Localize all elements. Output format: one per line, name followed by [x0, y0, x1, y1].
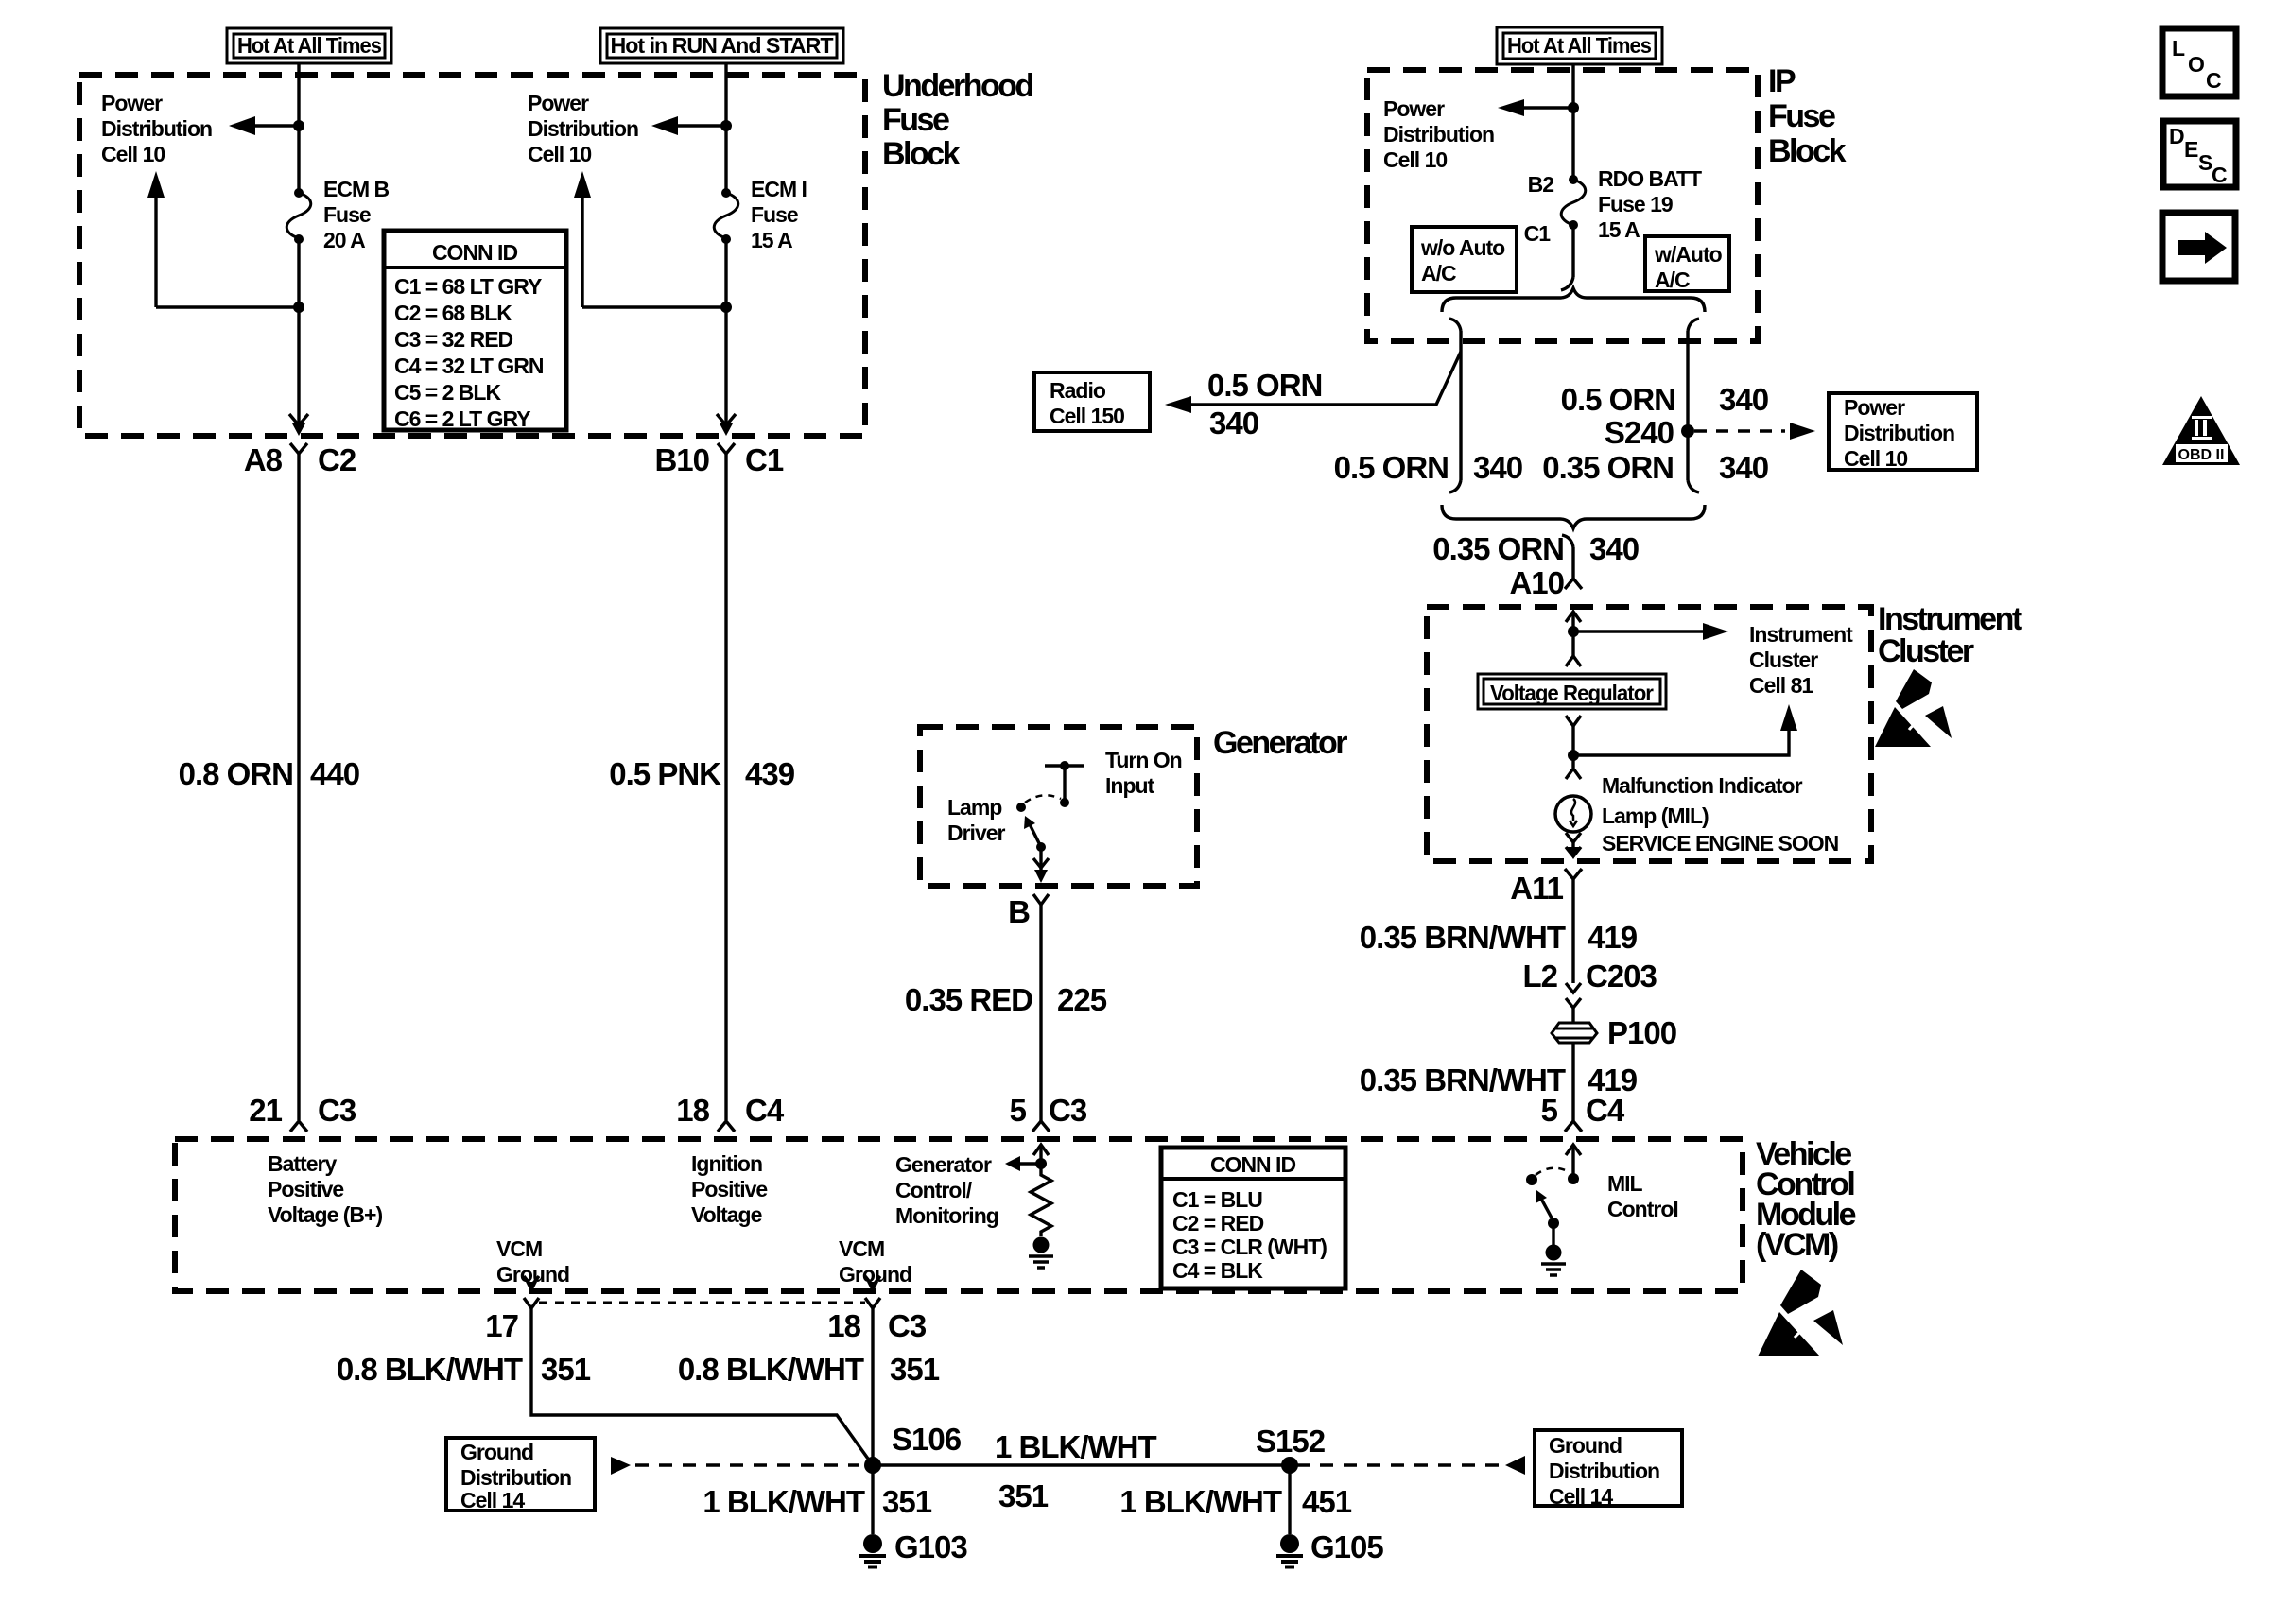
svg-text:Ground: Ground	[460, 1440, 533, 1464]
svg-text:Malfunction Indicator: Malfunction Indicator	[1602, 773, 1803, 798]
connector fork below generator (B)	[1033, 894, 1049, 905]
header box: Hot At All Times (IP)	[1497, 27, 1662, 64]
svg-text:C3 = 32 RED: C3 = 32 RED	[394, 327, 513, 352]
arrowhead to Radio box	[1165, 396, 1191, 413]
label: Instrument Cluster Cell 81	[1749, 622, 1853, 698]
svg-text:0.5 ORN: 0.5 ORN	[1334, 450, 1449, 485]
CONN ID table (underhood)	[384, 231, 566, 430]
wire: radio feed diagonal	[1190, 352, 1461, 405]
svg-text:S240: S240	[1605, 415, 1674, 450]
label: Ignition Positive Voltage	[691, 1151, 767, 1227]
wire W3 down to VCM	[1039, 905, 1042, 1121]
svg-text:Power: Power	[1844, 395, 1905, 420]
wire below RDO BATT fuse	[1571, 225, 1574, 277]
svg-text:Fuse: Fuse	[323, 202, 371, 227]
svg-text:Fuse 19: Fuse 19	[1598, 192, 1673, 216]
svg-text:5: 5	[1010, 1093, 1027, 1128]
svg-text:C2 = 68 BLK: C2 = 68 BLK	[394, 301, 512, 325]
svg-text:C6 = 2 LT GRY: C6 = 2 LT GRY	[394, 406, 530, 431]
wire from blade down to box edge	[1039, 847, 1042, 872]
arrowhead left (Power Distribution W1)	[229, 116, 255, 135]
splice S152	[1281, 1457, 1298, 1474]
arrowhead left (right ground distribution)	[1505, 1456, 1525, 1475]
svg-text:451: 451	[1302, 1484, 1352, 1519]
label: Vehicle Control Module (VCM)	[1756, 1136, 1856, 1263]
svg-text:Power: Power	[101, 91, 163, 115]
ESD symbol (VCM)	[1758, 1270, 1843, 1356]
arrow up into instrument cluster (A10 wire)	[1566, 612, 1581, 631]
label: ECM B Fuse 20 A	[323, 177, 390, 252]
svg-text:C1: C1	[1524, 221, 1552, 246]
wire: branch left to Power Distribution (W2)	[676, 124, 726, 127]
svg-text:C3: C3	[1049, 1093, 1087, 1128]
svg-text:Instrument: Instrument	[1749, 622, 1853, 647]
label: Instrument Cluster	[1878, 601, 2022, 669]
exit chevron + arrow (generator B)	[1033, 858, 1049, 883]
inline connector C203 (chevron pair)	[1566, 983, 1581, 1023]
svg-text:15 A: 15 A	[1598, 217, 1640, 242]
options brace lower	[1442, 505, 1705, 528]
svg-text:MIL: MIL	[1607, 1171, 1643, 1196]
svg-text:Cluster: Cluster	[1878, 633, 1974, 669]
svg-text:Hot At All Times: Hot At All Times	[1507, 33, 1651, 58]
box: Power Distribution Cell 10	[1829, 393, 1977, 470]
label: Underhood Fuse Block	[882, 68, 1033, 172]
wire horizontal to W2	[582, 305, 726, 308]
label: Battery Positive Voltage (B+)	[268, 1151, 382, 1227]
IP Fuse Block dashed box	[1367, 70, 1758, 341]
svg-text:CONN ID: CONN ID	[432, 240, 518, 265]
splice S106	[864, 1457, 881, 1474]
svg-text:C2: C2	[318, 442, 356, 477]
svg-text:Input: Input	[1105, 773, 1155, 798]
svg-text:E: E	[2184, 137, 2198, 162]
ground G103	[859, 1534, 886, 1567]
wire below P100 to VCM	[1571, 1043, 1574, 1121]
svg-text:Cell 10: Cell 10	[528, 142, 591, 166]
svg-text:1 BLK/WHT: 1 BLK/WHT	[703, 1484, 864, 1519]
svg-text:B: B	[1008, 894, 1030, 929]
label: ECM I Fuse 15 A	[751, 177, 807, 252]
option box: w/o Auto A/C	[1412, 227, 1517, 292]
main ground bus S106 to S152	[873, 1463, 1290, 1466]
label: Generator Control/ Monitoring	[895, 1152, 998, 1228]
svg-text:C3: C3	[888, 1308, 927, 1343]
icon box LOC	[2162, 28, 2236, 96]
label: Malfunction Indicator Lamp (MIL) SERVICE ENGINE SOON	[1602, 773, 1839, 855]
MIL switch left contact dot	[1526, 1174, 1537, 1185]
svg-text:S106: S106	[892, 1422, 962, 1457]
label: MIL Control	[1607, 1171, 1678, 1221]
svg-text:C5 = 2 BLK: C5 = 2 BLK	[394, 380, 501, 405]
svg-text:S152: S152	[1256, 1424, 1326, 1459]
svg-text:0.8 ORN: 0.8 ORN	[179, 756, 293, 791]
ground symbol (resistor)	[1029, 1256, 1053, 1268]
svg-text:A10: A10	[1509, 565, 1564, 600]
svg-text:C1 = 68 LT GRY: C1 = 68 LT GRY	[394, 274, 542, 299]
arrowhead left (Generator Control)	[1005, 1156, 1020, 1171]
svg-text:Fuse: Fuse	[1768, 98, 1835, 134]
svg-text:Control: Control	[1607, 1197, 1678, 1221]
label: Turn On Input	[1105, 748, 1182, 798]
connector fork-down A10	[1565, 579, 1582, 589]
svg-text:340: 340	[1589, 531, 1639, 566]
junction dot (MIL branch)	[1568, 750, 1579, 761]
resistor (generator monitoring)	[1031, 1164, 1051, 1236]
label: Power Distribution Cell 10 (mid)	[528, 91, 638, 166]
svg-text:OBD II: OBD II	[2178, 447, 2225, 463]
wire from MIL blade to ground	[1552, 1223, 1554, 1245]
fine dashed connector line between 17 and 18	[539, 1302, 865, 1304]
Vehicle Control Module dashed box	[175, 1139, 1743, 1291]
wire left from junction	[1018, 1162, 1041, 1165]
svg-text:Radio: Radio	[1050, 378, 1106, 403]
svg-text:CONN ID: CONN ID	[1210, 1152, 1296, 1177]
svg-text:Generator: Generator	[895, 1152, 992, 1177]
icon box arrow	[2162, 213, 2235, 281]
svg-text:0.35 ORN: 0.35 ORN	[1432, 531, 1564, 566]
connector fork-down at VCM 5/C3	[1032, 1121, 1050, 1132]
junction dot on W2	[720, 120, 732, 131]
svg-text:351: 351	[882, 1484, 932, 1519]
svg-text:Block: Block	[1768, 133, 1847, 169]
svg-text:Cell 10: Cell 10	[1383, 147, 1447, 172]
connector fork-down at VCM 5/C4	[1565, 1121, 1582, 1132]
connector chevron W1 at box exit	[289, 414, 308, 425]
OBD II symbol	[2162, 396, 2240, 465]
fuse ECM B 20A	[286, 188, 311, 244]
arrow up (Power Distribution feed W1)	[147, 171, 165, 198]
svg-text:439: 439	[745, 756, 795, 791]
svg-text:Cell 81: Cell 81	[1749, 673, 1813, 698]
box: Radio Cell 150	[1034, 372, 1150, 431]
option wire right (w/Auto A/C)	[1688, 319, 1699, 492]
CONN ID table (VCM)	[1161, 1148, 1345, 1288]
wire W1 below fuse	[297, 239, 300, 425]
svg-text:340: 340	[1473, 450, 1522, 485]
MIL switch dashed arc	[1536, 1168, 1570, 1175]
svg-text:B2: B2	[1528, 172, 1554, 197]
connector fork-down above MIL lamp	[1566, 769, 1581, 779]
connector fork-down at VCM 18/C4	[718, 1121, 735, 1132]
svg-text:Distribution: Distribution	[101, 116, 212, 141]
svg-text:C3 = CLR (WHT): C3 = CLR (WHT)	[1172, 1235, 1327, 1259]
svg-text:C4 = 32 LT GRN: C4 = 32 LT GRN	[394, 354, 544, 378]
connector fork-down at VCM 21/C3	[290, 1121, 307, 1132]
svg-text:15 A: 15 A	[751, 228, 792, 252]
svg-text:0.5 ORN: 0.5 ORN	[1561, 382, 1675, 417]
svg-text:340: 340	[1719, 382, 1768, 417]
fuse RDO BATT 15A	[1561, 175, 1586, 230]
svg-text:Hot in RUN And START: Hot in RUN And START	[611, 33, 834, 58]
svg-text:Ignition: Ignition	[691, 1151, 762, 1176]
svg-text:21: 21	[249, 1093, 282, 1128]
svg-text:340: 340	[1719, 450, 1768, 485]
exit connector below MIL lamp (double chevron + arrow)	[1566, 833, 1581, 859]
svg-text:0.35 BRN/WHT: 0.35 BRN/WHT	[1360, 1063, 1566, 1097]
svg-text:A8: A8	[244, 442, 283, 477]
dashed switch arc	[1025, 795, 1061, 803]
MIL switch blade	[1536, 1190, 1559, 1229]
svg-text:P100: P100	[1607, 1015, 1676, 1050]
connector fork below voltage regulator	[1566, 716, 1581, 726]
svg-text:440: 440	[310, 756, 359, 791]
wire S152 to G105	[1288, 1465, 1291, 1534]
svg-text:(VCM): (VCM)	[1756, 1227, 1838, 1263]
svg-text:Hot At All Times: Hot At All Times	[237, 33, 381, 58]
arrowhead up (Cell 81 feed)	[1780, 704, 1797, 731]
Underhood Fuse Block dashed box	[79, 75, 865, 436]
svg-text:225: 225	[1057, 982, 1107, 1017]
dashed wire from left ground box to S106	[635, 1463, 859, 1466]
connector fork 18/C3 below VCM	[865, 1298, 880, 1308]
connector chevron W2 at box exit	[717, 414, 736, 425]
svg-text:A11: A11	[1510, 871, 1563, 906]
svg-text:C: C	[2212, 163, 2227, 187]
wire: branch left to Power Distribution	[253, 124, 299, 127]
svg-text:C4 = BLK: C4 = BLK	[1172, 1258, 1263, 1283]
connector fork A8/C2	[290, 443, 307, 454]
Generator dashed box	[920, 727, 1197, 886]
dashed wire from S240 to Power Distribution	[1694, 429, 1785, 432]
junction dot (generator control)	[1035, 1158, 1047, 1169]
svg-text:Positive: Positive	[268, 1177, 343, 1201]
connector fork-down above voltage regulator	[1566, 656, 1581, 666]
junction dot instrument cluster top	[1568, 626, 1579, 637]
svg-text:A/C: A/C	[1421, 261, 1456, 285]
ground symbol (MIL)	[1541, 1264, 1566, 1275]
svg-text:0.35 ORN: 0.35 ORN	[1542, 450, 1674, 485]
ground wire from pin 17	[531, 1308, 873, 1465]
connector fork B10/C1	[718, 443, 735, 454]
svg-text:Cluster: Cluster	[1749, 648, 1818, 672]
svg-text:C1 = BLU: C1 = BLU	[1172, 1187, 1262, 1212]
svg-text:18: 18	[676, 1093, 709, 1128]
ground dot (resistor)	[1033, 1237, 1050, 1253]
wire W1 from Hot At All Times into fuse block	[297, 63, 300, 193]
svg-text:Distribution: Distribution	[1383, 122, 1494, 147]
box: Ground Distribution Cell 14 (right)	[1535, 1430, 1682, 1506]
svg-text:20 A: 20 A	[323, 228, 365, 252]
svg-text:0.35 RED: 0.35 RED	[905, 982, 1032, 1017]
svg-text:Distribution: Distribution	[1549, 1459, 1659, 1483]
svg-text:ECM B: ECM B	[323, 177, 390, 201]
wire A11 down to C203	[1571, 879, 1574, 983]
svg-text:Cell 14: Cell 14	[460, 1488, 525, 1512]
svg-text:419: 419	[1588, 920, 1638, 955]
svg-text:B10: B10	[654, 442, 709, 477]
svg-text:VCM: VCM	[839, 1236, 884, 1261]
grommet P100	[1552, 1023, 1597, 1043]
svg-text:5: 5	[1541, 1093, 1558, 1128]
wire down to MIL junction	[1571, 726, 1574, 768]
wire S106 to G103	[871, 1465, 874, 1534]
svg-text:Turn On: Turn On	[1105, 748, 1182, 772]
junction dot on W1	[293, 120, 304, 131]
svg-text:0.35 BRN/WHT: 0.35 BRN/WHT	[1360, 920, 1566, 955]
wire W1 long run to VCM	[297, 454, 300, 1120]
svg-text:340: 340	[1209, 406, 1258, 441]
junction dot W2 lower	[720, 302, 732, 313]
svg-text:Cell 10: Cell 10	[1844, 446, 1907, 471]
wire W2 long run to VCM	[724, 454, 727, 1120]
MIL switch right contact dot	[1568, 1173, 1579, 1184]
MIL control arrow up into VCM	[1566, 1145, 1581, 1179]
svg-text:0.5 ORN: 0.5 ORN	[1207, 368, 1322, 403]
Instrument Cluster dashed box	[1427, 607, 1871, 861]
svg-text:C203: C203	[1586, 959, 1657, 993]
box: Voltage Regulator	[1478, 674, 1666, 709]
svg-text:Block: Block	[882, 136, 961, 172]
svg-text:ECM I: ECM I	[751, 177, 807, 201]
svg-text:D: D	[2169, 124, 2184, 148]
svg-text:Voltage: Voltage	[691, 1202, 762, 1227]
svg-text:Voltage (B+): Voltage (B+)	[268, 1202, 382, 1227]
junction dot W1 lower	[293, 302, 304, 313]
svg-text:18: 18	[827, 1308, 860, 1343]
svg-text:Distribution: Distribution	[1844, 421, 1954, 445]
arrowhead right (left ground distribution)	[611, 1457, 631, 1475]
turn-on input contact bar	[1045, 761, 1084, 807]
label: Power Distribution Cell 10 (IP)	[1383, 96, 1494, 172]
svg-text:w/o Auto: w/o Auto	[1420, 235, 1505, 260]
connector fork below instrument cluster A11	[1565, 869, 1582, 879]
header box: Hot in RUN And START	[600, 28, 843, 63]
wire horizontal to W1	[156, 305, 299, 308]
label: Power Distribution Cell 10 (left)	[101, 91, 212, 166]
connector fork 17 below VCM	[524, 1298, 539, 1308]
svg-text:C4: C4	[745, 1093, 785, 1128]
svg-text:Lamp: Lamp	[947, 795, 1002, 820]
svg-text:Monitoring: Monitoring	[895, 1203, 998, 1228]
box: Ground Distribution Cell 14 (left)	[446, 1438, 595, 1511]
svg-text:0.8 BLK/WHT: 0.8 BLK/WHT	[678, 1352, 864, 1387]
svg-text:L: L	[2172, 36, 2185, 60]
svg-text:Positive: Positive	[691, 1177, 767, 1201]
svg-text:C1: C1	[745, 442, 784, 477]
ground dot (MIL)	[1546, 1245, 1562, 1261]
label: VCM Ground (right)	[839, 1236, 911, 1287]
svg-text:Instrument: Instrument	[1878, 601, 2022, 637]
svg-text:G105: G105	[1310, 1529, 1383, 1564]
arrowhead left (Power Distribution W2)	[651, 116, 678, 135]
svg-text:C2 = RED: C2 = RED	[1172, 1211, 1264, 1235]
ground wire from pin 18 C3	[871, 1308, 874, 1465]
wire right to instrument cluster cell 81	[1573, 630, 1703, 632]
splice S240	[1681, 424, 1694, 438]
svg-text:VCM: VCM	[496, 1236, 542, 1261]
svg-text:Ground: Ground	[1549, 1433, 1622, 1458]
svg-text:IP: IP	[1768, 63, 1796, 99]
svg-text:351: 351	[890, 1352, 940, 1387]
arrowhead left (IP power distribution)	[1498, 99, 1524, 116]
svg-text:C: C	[2206, 68, 2221, 93]
dashed wire from S152 to right ground box	[1296, 1463, 1503, 1466]
label: VCM Ground (left)	[496, 1236, 569, 1287]
label: IP Fuse Block	[1768, 63, 1847, 169]
svg-text:Fuse: Fuse	[751, 202, 798, 227]
wire right then up to Cell 81	[1573, 730, 1789, 755]
svg-text:C4: C4	[1586, 1093, 1625, 1128]
wire branch left (IP power distribution)	[1522, 106, 1573, 109]
header box: Hot At All Times (left)	[227, 28, 391, 63]
svg-text:0.8 BLK/WHT: 0.8 BLK/WHT	[337, 1352, 523, 1387]
ESD symbol (instrument cluster)	[1875, 669, 1952, 747]
svg-text:Control/: Control/	[895, 1178, 973, 1202]
generator control arrow up into VCM	[1033, 1145, 1049, 1164]
switch blade (generator)	[1024, 816, 1046, 852]
svg-text:Generator: Generator	[1213, 725, 1347, 761]
wire W2 below fuse	[724, 239, 727, 425]
svg-text:351: 351	[998, 1478, 1049, 1513]
fuse ECM I 15A	[714, 188, 738, 244]
svg-text:Driver: Driver	[947, 821, 1006, 845]
options brace upper	[1442, 288, 1705, 312]
svg-text:1 BLK/WHT: 1 BLK/WHT	[995, 1429, 1156, 1464]
wire below lower brace with hook	[1562, 535, 1573, 579]
VCM ground exit stub left (17)	[524, 1276, 539, 1293]
svg-text:w/Auto: w/Auto	[1654, 242, 1723, 267]
svg-text:L2: L2	[1522, 959, 1557, 993]
wire down from junction to voltage regulator	[1571, 631, 1574, 656]
svg-text:SERVICE ENGINE SOON: SERVICE ENGINE SOON	[1602, 831, 1839, 855]
junction dot IP	[1568, 102, 1579, 113]
label: RDO BATT Fuse 19 15 A	[1598, 166, 1702, 242]
svg-text:Distribution: Distribution	[460, 1465, 571, 1490]
svg-text:C3: C3	[318, 1093, 356, 1128]
svg-text:351: 351	[541, 1352, 591, 1387]
svg-text:Voltage Regulator: Voltage Regulator	[1490, 681, 1654, 705]
svg-text:Cell 14: Cell 14	[1549, 1484, 1613, 1509]
svg-text:Distribution: Distribution	[528, 116, 638, 141]
VCM ground exit stub right (18 C3)	[865, 1276, 880, 1293]
wire break hook below fuse	[1561, 277, 1573, 290]
arrow up (Power Distribution feed W2)	[574, 171, 591, 198]
svg-text:1 BLK/WHT: 1 BLK/WHT	[1119, 1484, 1281, 1519]
lamp driver contact dot	[1016, 803, 1026, 812]
arrowhead right (Instrument Cluster Cell 81)	[1703, 623, 1728, 640]
svg-text:O: O	[2188, 52, 2204, 77]
svg-text:Fuse: Fuse	[882, 102, 949, 138]
svg-text:Battery: Battery	[268, 1151, 337, 1176]
wire from IP Hot box down	[1571, 64, 1574, 180]
svg-text:Lamp (MIL): Lamp (MIL)	[1602, 803, 1709, 828]
option box: w/Auto A/C	[1645, 236, 1729, 291]
svg-text:Cell 10: Cell 10	[101, 142, 165, 166]
arrowhead to Power Distribution box	[1790, 423, 1815, 440]
svg-text:17: 17	[485, 1308, 518, 1343]
svg-text:RDO BATT: RDO BATT	[1598, 166, 1702, 191]
svg-text:Power: Power	[528, 91, 589, 115]
svg-text:G103: G103	[894, 1529, 967, 1564]
svg-text:0.5 PNK: 0.5 PNK	[609, 756, 721, 791]
svg-text:A/C: A/C	[1655, 268, 1690, 292]
svg-text:S: S	[2198, 150, 2212, 175]
svg-text:Underhood: Underhood	[882, 68, 1033, 104]
svg-text:Cell 150: Cell 150	[1050, 404, 1124, 428]
option wire left (w/o Auto A/C)	[1449, 319, 1461, 492]
icon box DESC	[2163, 121, 2236, 187]
label: Lamp Driver	[947, 795, 1006, 845]
ground G105	[1276, 1534, 1303, 1567]
MIL lamp circle	[1555, 796, 1591, 832]
wire W2 from Hot in RUN And START	[724, 63, 727, 193]
svg-text:Power: Power	[1383, 96, 1445, 121]
